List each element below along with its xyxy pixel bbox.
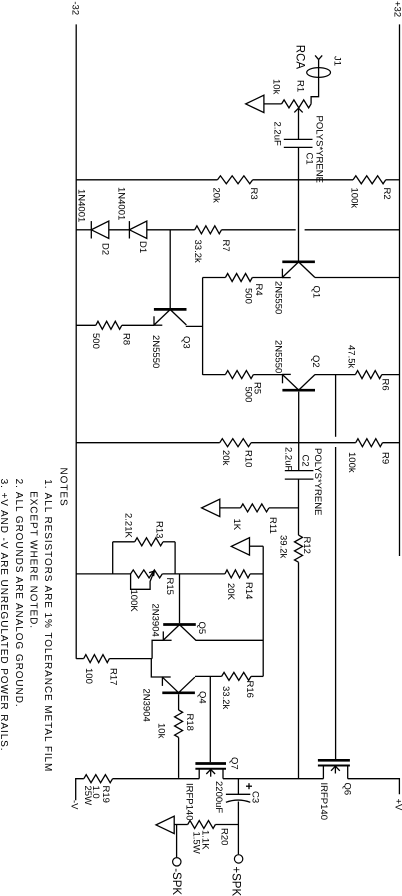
svg-text:39.2k: 39.2k [278, 535, 289, 558]
+32V rail wire [399, 24, 401, 556]
svg-text:100K: 100K [128, 590, 139, 613]
svg-text:R11: R11 [267, 517, 278, 534]
svg-text:2N3904: 2N3904 [150, 604, 161, 637]
wire tail bus [202, 278, 204, 375]
mosfet Q7 [195, 762, 226, 765]
wire Q3 emitter to R8 [122, 324, 154, 326]
resistor R16 zigzag [222, 672, 252, 680]
wire Q2 base lead [298, 392, 300, 471]
mosfet Q6 [318, 759, 350, 762]
wire gate row right of crossover [335, 447, 337, 759]
svg-text:Q1: Q1 [311, 286, 322, 299]
svg-text:2200uF: 2200uF [213, 781, 224, 813]
svg-text:R14: R14 [243, 582, 254, 599]
-32V rail wire [75, 24, 77, 658]
svg-text:Q7: Q7 [229, 757, 240, 770]
svg-text:R20: R20 [219, 828, 230, 845]
svg-text:R8: R8 [121, 333, 132, 345]
svg-text:+SPKR: +SPKR [230, 866, 242, 896]
resistor R2 zigzag [353, 176, 386, 184]
wire Q3 collector riser [186, 325, 203, 327]
connector J1 ellipse [307, 68, 331, 78]
svg-text:R19: R19 [100, 786, 111, 803]
wire Q5 collector to node row [195, 639, 263, 641]
resistor R20 zigzag [188, 821, 216, 829]
svg-text:R6: R6 [380, 379, 391, 391]
wire J1 to R1 [311, 60, 319, 104]
resistor R11 zigzag [241, 504, 269, 512]
svg-text:POLYS*YRENE: POLYS*YRENE [312, 448, 323, 515]
svg-text:R10: R10 [243, 450, 254, 467]
wire R13 top connector [174, 542, 176, 574]
svg-text:R3: R3 [248, 188, 259, 200]
svg-text:2.2uF: 2.2uF [283, 447, 294, 471]
transistor Q3 [154, 308, 187, 311]
svg-text:+V: +V [393, 799, 402, 812]
resistor R10 zigzag [220, 439, 251, 447]
wire Q5 base lead [179, 574, 181, 623]
svg-text:47.5k: 47.5k [346, 345, 357, 368]
svg-text:100: 100 [83, 668, 94, 684]
wire Q4 base lead [178, 694, 180, 710]
wire R12 to output column [298, 562, 300, 779]
wire R13 lower stub [113, 541, 135, 543]
wire Q3 base lead [169, 230, 171, 308]
capacitor C3 curved plate [226, 800, 250, 802]
svg-text:-SPKR: -SPKR [170, 868, 182, 896]
svg-text:Q3: Q3 [181, 336, 192, 349]
wire D2 to -32 [76, 229, 91, 231]
transistor Q2 [282, 389, 315, 392]
svg-text:-V: -V [69, 800, 80, 810]
resistor R14 zigzag [225, 570, 250, 578]
capacitor C2 plates [285, 470, 314, 472]
svg-text:3. +V AND -V ARE UNREGULATED P: 3. +V AND -V ARE UNREGULATED POWER RAILS… [0, 479, 9, 752]
wire Q1 collector to +32 [315, 277, 400, 279]
svg-text:2. ALL GROUNDS ARE ANALOG GROU: 2. ALL GROUNDS ARE ANALOG GROUND. [13, 479, 24, 708]
diode D1 [129, 221, 146, 238]
svg-text:2.21K: 2.21K [123, 513, 134, 538]
resistor R8 zigzag [96, 321, 122, 329]
svg-text:2N5550: 2N5550 [150, 335, 161, 368]
svg-text:Q5: Q5 [196, 622, 207, 635]
wire C2 to R12 [298, 479, 300, 535]
wire R8 to -32 [76, 324, 96, 326]
resistor R5 zigzag [225, 371, 253, 379]
transistor Q1 [282, 260, 315, 263]
svg-text:100k: 100k [349, 188, 360, 209]
svg-text:Q4: Q4 [197, 691, 208, 704]
wire Q5 emitter [152, 640, 163, 658]
wire R1 wiper to C1 [298, 108, 300, 139]
svg-text:R9: R9 [380, 452, 391, 464]
wire R18 to source column [178, 737, 180, 778]
wire +32 to R9 [383, 442, 400, 444]
wire Q4 collector to Q7 gate [209, 676, 211, 762]
ground symbol at R11 [202, 499, 220, 516]
svg-text:+32: +32 [391, 1, 402, 17]
svg-text:500: 500 [243, 387, 254, 403]
wire R14 top [250, 573, 263, 575]
trimmer R15 zigzag [131, 570, 163, 578]
diode D2 [91, 221, 109, 238]
svg-text:R4: R4 [253, 284, 264, 296]
wire node row corner to R16 [251, 675, 263, 677]
svg-text:R7: R7 [220, 240, 231, 252]
svg-text:100k: 100k [346, 452, 357, 473]
svg-text:C1: C1 [304, 153, 315, 165]
wire output to C3 [237, 779, 239, 795]
wire R19 to -V [76, 779, 84, 801]
svg-text:R12: R12 [301, 537, 312, 554]
svg-text:R18: R18 [184, 714, 195, 731]
wire to -SPKR terminal [176, 825, 178, 858]
svg-text:NOTES: NOTES [57, 468, 68, 507]
wire R17 to -32 [76, 658, 84, 660]
svg-text:33.2k: 33.2k [192, 240, 203, 263]
terminal -SPKR circle [173, 858, 181, 866]
svg-text:2N3904: 2N3904 [141, 689, 152, 722]
svg-text:1N4001: 1N4001 [116, 187, 127, 220]
ground symbol at -SPKR [156, 816, 174, 833]
potentiometer R1 zigzag [282, 100, 312, 108]
resistor R6 zigzag [355, 371, 381, 379]
wire R14 to Q5 base node [162, 573, 225, 575]
svg-text:R2: R2 [381, 188, 392, 200]
svg-text:1.5W: 1.5W [191, 832, 202, 854]
wire Q6 drain to +V [348, 779, 400, 795]
wire output to R20 [215, 824, 238, 826]
wire signal to R11 [269, 507, 299, 509]
resistor R3 zigzag [218, 176, 253, 184]
svg-text:20K: 20K [225, 583, 236, 601]
resistor R19 zigzag [84, 775, 113, 783]
terminal +SPKR circle [234, 855, 242, 863]
wire Q7 source to R19 [113, 778, 200, 780]
wire node row 139 [262, 546, 264, 676]
wire C1 to Q1 base [298, 147, 300, 260]
svg-text:POLYS*YRENE: POLYS*YRENE [314, 116, 325, 183]
capacitor C3 plus plate [226, 793, 250, 795]
wire Q6 source to Q7 drain [223, 778, 323, 780]
resistor R7 zigzag [195, 226, 222, 234]
svg-text:2.2uF: 2.2uF [272, 122, 283, 146]
svg-text:500: 500 [243, 288, 254, 304]
wire R15 wiper [131, 571, 155, 589]
wire R6 to Q2 collector [315, 374, 356, 376]
wire +32 to R7 upper [305, 229, 400, 231]
wire R13 upper stub [163, 541, 175, 543]
wire R7 column lower [222, 229, 296, 231]
wire R20 to -SPKR row [174, 824, 188, 826]
wire node row to ground stub [250, 545, 264, 547]
svg-text:R13: R13 [154, 521, 165, 538]
wire R10 to -32 [76, 442, 219, 444]
svg-text:2N5550: 2N5550 [273, 281, 284, 314]
transistor Q5 [163, 623, 196, 626]
wire R13 bottom connector [112, 542, 114, 574]
svg-text:25W: 25W [82, 786, 93, 806]
resistor R9 zigzag [356, 439, 383, 447]
svg-text:C2: C2 [300, 455, 311, 467]
wire R9 to R10 [251, 442, 356, 444]
svg-text:-32: -32 [69, 1, 80, 15]
resistor R12 zigzag [295, 535, 303, 562]
svg-text:1K: 1K [231, 519, 242, 531]
wire D1 to D2 [109, 229, 130, 231]
connector J1 fork [315, 55, 319, 59]
svg-text:RCA: RCA [294, 45, 306, 70]
svg-text:20k: 20k [211, 188, 222, 204]
wire +32 to R2 [386, 179, 400, 181]
wire +32 to R6 [382, 374, 400, 376]
svg-text:10k: 10k [271, 79, 282, 95]
resistor R18 zigzag [175, 710, 183, 737]
resistor R13 zigzag [135, 538, 163, 546]
svg-text:R17: R17 [108, 668, 119, 685]
svg-text:2N5550: 2N5550 [273, 340, 284, 373]
ground symbol at node row [231, 538, 249, 555]
svg-text:500: 500 [90, 333, 101, 349]
wire Q2 emitter to R5 [253, 374, 282, 376]
svg-text:D1: D1 [137, 241, 148, 253]
wire Q2 collector node to gate row left [335, 375, 337, 437]
svg-text:IRFP140: IRFP140 [184, 783, 195, 821]
svg-text:20k: 20k [220, 450, 231, 466]
svg-text:R15: R15 [164, 578, 175, 595]
svg-text:33.2k: 33.2k [220, 686, 231, 709]
svg-text:Q6: Q6 [342, 783, 353, 796]
wire Q1 emitter to R4 [252, 277, 282, 279]
svg-text:D2: D2 [100, 243, 111, 255]
resistor R4 zigzag [225, 274, 252, 282]
svg-text:R1: R1 [295, 80, 306, 92]
wire C3 to +SPKR [237, 802, 239, 855]
svg-text:Q2: Q2 [310, 355, 321, 368]
svg-text:EXCEPT WHERE NOTED.: EXCEPT WHERE NOTED. [28, 491, 39, 629]
svg-text:J1: J1 [332, 56, 343, 66]
wire R11 to ground [220, 507, 241, 509]
svg-text:1N4001: 1N4001 [76, 189, 87, 222]
wire R3 to -32 [76, 179, 217, 181]
ground symbol at R1 [246, 95, 264, 112]
wire Q4 emitter [151, 659, 162, 677]
wire R15 to -32 [76, 573, 130, 575]
svg-text:1. ALL RESISTORS ARE 1% TOLERA: 1. ALL RESISTORS ARE 1% TOLERANCE METAL … [42, 479, 53, 772]
wire R2 to R3 [253, 179, 353, 181]
wire R5 to tail bus [203, 374, 226, 376]
svg-text:IRFP140: IRFP140 [318, 783, 329, 821]
svg-text:C3: C3 [250, 791, 261, 803]
potentiometer R1 wiper arrow [294, 108, 298, 112]
svg-text:10k: 10k [156, 723, 167, 739]
wire R16 to Q4 collector [195, 675, 222, 677]
svg-text:R16: R16 [244, 681, 255, 698]
wire R7 to D1 [147, 229, 195, 231]
wire R4 to tail bus [203, 277, 226, 279]
trimmer R15 wiper arrowhead [153, 571, 156, 576]
transistor Q4 [162, 691, 195, 694]
resistor R17 zigzag [84, 655, 110, 663]
wire R1 to ground [264, 103, 282, 105]
capacitor C1 plates [284, 138, 313, 140]
capacitor C3 plus sign [248, 783, 250, 789]
wire shared emitter to R17 [109, 658, 152, 660]
